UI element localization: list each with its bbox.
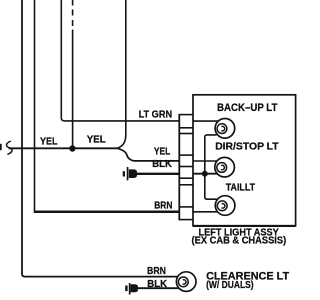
connector C1 rungs <box>179 114 194 116</box>
wire BRN horizontal to connector <box>34 210 180 213</box>
wire BRN vertical (second from left, to taillight connector) <box>34 0 36 211</box>
wire YEL merged output to connector <box>118 148 180 161</box>
junction dot ground bus <box>202 171 208 177</box>
svg-text:(EX CAB & CHASSIS): (EX CAB & CHASSIS) <box>192 236 287 247</box>
wire YEL branch vertical (dashed at top) <box>72 0 74 6</box>
connector C1 left bar <box>178 114 180 220</box>
lamp dir/stop: inner <box>217 163 227 173</box>
svg-text:DIR/STOP LT: DIR/STOP LT <box>215 142 279 153</box>
lamp clearance: inner <box>178 277 188 287</box>
wire YEL merge vertical (from top, curving into YEL) <box>118 0 126 148</box>
svg-text:BLK: BLK <box>147 279 167 290</box>
lamp back-up: filament <box>221 126 224 130</box>
ground G1 tall bar <box>127 167 129 180</box>
wire LT GRN vertical (third from left) <box>61 0 179 121</box>
svg-text:YEL: YEL <box>87 135 106 146</box>
ground G1 terminal blob <box>129 169 137 178</box>
wire YEL main horizontal <box>9 147 118 149</box>
junction dot YEL branch <box>69 145 75 151</box>
box left light assembly <box>193 95 296 226</box>
clipped mark at image edge <box>0 144 2 150</box>
wire LT GRN inside box to back-up lamp <box>193 120 218 122</box>
ground bus inside box <box>205 135 218 199</box>
box bottom edge emphasis <box>193 225 296 227</box>
wire BLK from ground G1 to connector <box>137 173 180 175</box>
ground G2 tall bar <box>129 283 131 294</box>
lamp clearance: filament <box>183 280 186 284</box>
svg-text:(W/ DUALS): (W/ DUALS) <box>206 280 254 291</box>
wire YEL inside box to dir/stop lamp <box>193 160 217 162</box>
wire BRN inside box to taillt lamp <box>193 211 218 213</box>
svg-text:TAILLT: TAILLT <box>226 183 255 194</box>
svg-text:LT GRN: LT GRN <box>139 110 173 121</box>
svg-text:YEL: YEL <box>154 146 170 157</box>
ground G2 short bar <box>125 286 127 292</box>
svg-text:BRN: BRN <box>154 200 172 211</box>
wire BLK inside box through junction <box>193 173 217 175</box>
ground G1 short bar <box>123 171 125 176</box>
lamp dir/stop: outer <box>215 157 235 177</box>
svg-text:BLK: BLK <box>152 159 172 170</box>
svg-text:BACK–UP LT: BACK–UP LT <box>217 102 278 114</box>
lamp back-up: outer <box>215 119 235 139</box>
lamp taillt: inner <box>217 201 227 211</box>
wire BLK from ground G2 to clearance lamp <box>138 287 179 289</box>
lamp taillt: filament <box>222 204 225 208</box>
lamp clearance: outer <box>176 272 196 292</box>
lamp taillt: outer <box>215 196 235 216</box>
wire break symbol at left end of YEL wire <box>7 141 13 154</box>
wire YEL feed vertical (left-most, to clearance lamp) <box>22 0 178 277</box>
svg-text:BRN: BRN <box>147 266 166 277</box>
lamp dir/stop: filament <box>221 165 224 169</box>
ground G2 terminal blob <box>131 284 138 292</box>
lamp back-up: inner <box>217 124 227 134</box>
svg-text:YEL: YEL <box>40 136 58 147</box>
